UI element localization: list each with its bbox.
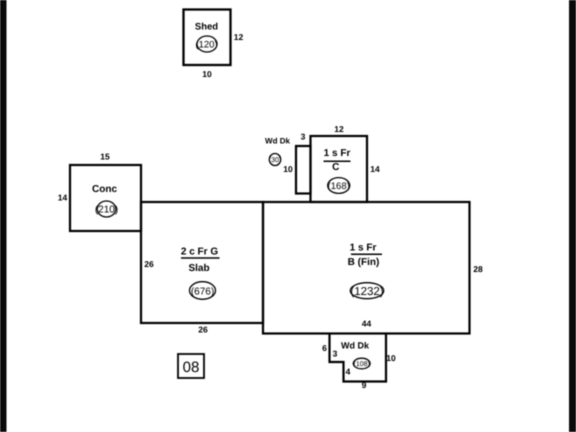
svg-text:4: 4 (346, 367, 351, 377)
main house box (263, 202, 470, 334)
svg-text:1 s Fr: 1 s Fr (350, 243, 377, 254)
svg-text:10: 10 (283, 164, 293, 174)
svg-text:44: 44 (362, 319, 372, 329)
svg-text:Conc: Conc (92, 184, 117, 195)
crawl fraction bar (324, 160, 351, 162)
conc area oval (97, 201, 116, 217)
svg-text:28: 28 (473, 264, 483, 274)
svg-text:6: 6 (322, 343, 327, 353)
svg-text:08: 08 (183, 359, 200, 376)
svg-text:12: 12 (334, 124, 344, 134)
garage slab box (141, 202, 263, 323)
svg-text:(676): (676) (191, 286, 214, 297)
upper deck area oval (269, 154, 280, 166)
crawl area oval (328, 178, 350, 194)
house area oval (350, 283, 383, 299)
svg-text:Slab: Slab (188, 263, 209, 274)
svg-text:26: 26 (198, 325, 208, 335)
svg-text:3: 3 (301, 132, 306, 142)
upper wood deck rect (296, 146, 311, 194)
lower wood deck polygon (330, 334, 387, 382)
svg-text:(168): (168) (328, 181, 350, 192)
svg-text:Wd Dk: Wd Dk (341, 341, 370, 351)
svg-text:B (Fin): B (Fin) (348, 257, 380, 268)
svg-text:C: C (332, 162, 339, 173)
right black bar (569, 0, 576, 432)
svg-text:9: 9 (362, 380, 367, 390)
svg-text:26: 26 (144, 259, 154, 269)
svg-text:3: 3 (333, 349, 338, 359)
svg-text:Wd Dk: Wd Dk (265, 137, 290, 146)
shed area oval (197, 36, 217, 52)
svg-text:1 s Fr: 1 s Fr (324, 148, 351, 159)
svg-text:(30): (30) (269, 156, 281, 164)
svg-text:14: 14 (370, 164, 380, 174)
svg-text:(210): (210) (95, 205, 118, 216)
svg-text:2 c Fr G: 2 c Fr G (181, 247, 218, 258)
svg-text:10: 10 (386, 353, 396, 363)
crawl box 1 s Fr / C (311, 136, 368, 202)
left black bar (0, 0, 7, 432)
svg-text:(120): (120) (195, 40, 217, 51)
svg-text:14: 14 (58, 193, 68, 203)
svg-text:15: 15 (100, 152, 110, 162)
slab fraction bar (181, 257, 220, 259)
photo number box 08 (178, 354, 204, 378)
conc box (70, 165, 141, 231)
slab area oval (190, 282, 216, 300)
svg-text:(1232): (1232) (350, 286, 383, 298)
svg-text:12: 12 (234, 32, 244, 42)
svg-text:(108): (108) (354, 360, 370, 368)
lower deck area oval (353, 358, 370, 369)
shed box (184, 10, 231, 66)
svg-text:10: 10 (202, 69, 212, 79)
svg-text:Shed: Shed (195, 22, 218, 33)
house fraction bar (351, 253, 382, 255)
